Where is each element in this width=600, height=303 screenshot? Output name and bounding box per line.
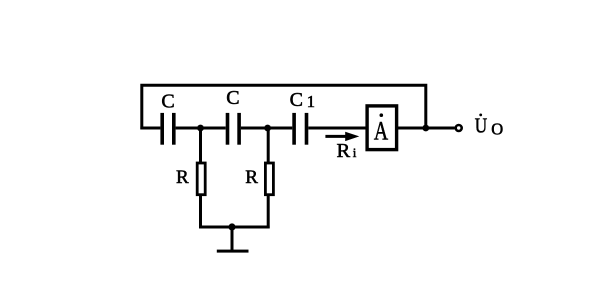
svg-text:A: A xyxy=(374,116,389,145)
svg-text:C: C xyxy=(290,89,303,111)
svg-text:R: R xyxy=(245,167,258,188)
svg-text:i: i xyxy=(353,145,357,160)
svg-text:C: C xyxy=(226,87,239,109)
svg-text:R: R xyxy=(337,140,351,162)
svg-text:R: R xyxy=(176,167,189,188)
svg-text:O: O xyxy=(491,119,503,138)
svg-text:U: U xyxy=(475,115,488,138)
svg-text:1: 1 xyxy=(307,92,315,111)
svg-text:C: C xyxy=(161,91,174,113)
